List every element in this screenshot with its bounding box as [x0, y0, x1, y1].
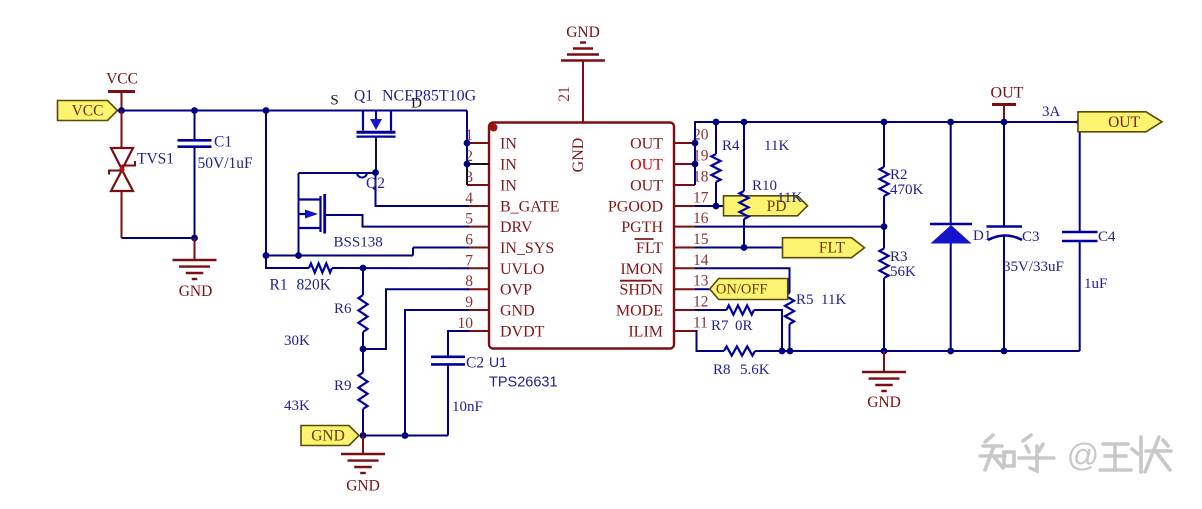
svg-text:21: 21	[556, 86, 573, 102]
svg-text:0R: 0R	[735, 318, 753, 334]
svg-text:OUT: OUT	[991, 85, 1024, 102]
svg-text:R6: R6	[334, 301, 352, 317]
svg-text:IMON: IMON	[620, 261, 663, 278]
svg-text:11K: 11K	[777, 190, 802, 206]
svg-text:BSS138: BSS138	[334, 235, 383, 251]
svg-text:9: 9	[465, 294, 473, 311]
svg-text:820K: 820K	[297, 277, 332, 294]
svg-text:D: D	[411, 96, 422, 112]
svg-text:OVP: OVP	[500, 282, 532, 299]
svg-text:GND: GND	[566, 24, 600, 41]
svg-text:R10: R10	[752, 178, 777, 194]
svg-text:IN: IN	[500, 136, 517, 153]
svg-text:R3: R3	[890, 249, 908, 265]
svg-text:FLT: FLT	[819, 240, 846, 257]
svg-text:30K: 30K	[284, 333, 310, 349]
svg-text:3A: 3A	[1042, 104, 1061, 120]
svg-text:R4: R4	[722, 138, 740, 154]
svg-text:IN: IN	[500, 157, 517, 174]
svg-text:GND: GND	[179, 283, 213, 300]
svg-text:R1: R1	[270, 277, 288, 294]
svg-text:470K: 470K	[890, 182, 924, 198]
svg-text:7: 7	[465, 252, 473, 269]
svg-text:10: 10	[458, 315, 474, 332]
svg-text:C2: C2	[466, 355, 484, 372]
svg-text:12: 12	[693, 294, 709, 311]
svg-text:UVLO: UVLO	[500, 261, 544, 278]
svg-text:C4: C4	[1098, 229, 1116, 245]
svg-text:OUT: OUT	[1108, 114, 1140, 131]
svg-text:13: 13	[693, 273, 709, 290]
svg-text:43K: 43K	[284, 398, 310, 414]
svg-text:U1: U1	[489, 354, 507, 370]
svg-text:DRV: DRV	[500, 219, 533, 236]
svg-text:DVDT: DVDT	[500, 324, 545, 341]
svg-text:11K: 11K	[764, 138, 789, 154]
svg-text:8: 8	[465, 273, 473, 290]
svg-text:4: 4	[465, 190, 473, 207]
svg-text:R8: R8	[713, 362, 731, 378]
svg-text:ON/OFF: ON/OFF	[716, 282, 768, 298]
svg-text:56K: 56K	[890, 264, 916, 280]
svg-text:OUT: OUT	[630, 157, 663, 174]
svg-text:Q1: Q1	[354, 88, 373, 105]
svg-text:NCEP85T10G: NCEP85T10G	[382, 88, 477, 105]
svg-text:35V/33uF: 35V/33uF	[1003, 259, 1064, 275]
svg-text:TVS1: TVS1	[137, 151, 174, 168]
svg-text:5.6K: 5.6K	[740, 362, 770, 378]
svg-text:1uF: 1uF	[1084, 276, 1107, 292]
svg-text:R5: R5	[796, 292, 814, 308]
svg-text:VCC: VCC	[72, 103, 104, 120]
svg-text:Q2: Q2	[366, 175, 385, 192]
svg-text:11: 11	[693, 315, 708, 332]
svg-text:IN: IN	[500, 178, 517, 195]
svg-text:ILIM: ILIM	[628, 324, 663, 341]
svg-text:OUT: OUT	[630, 178, 663, 195]
svg-text:IN_SYS: IN_SYS	[500, 240, 554, 257]
svg-text:TPS26631: TPS26631	[489, 375, 558, 391]
svg-text:C3: C3	[1022, 229, 1040, 245]
svg-text:C1: C1	[214, 134, 232, 151]
svg-text:FLT: FLT	[636, 240, 663, 257]
svg-text:R7: R7	[711, 318, 729, 334]
svg-text:GND: GND	[867, 394, 901, 411]
svg-text:B_GATE: B_GATE	[500, 199, 560, 216]
svg-text:GND: GND	[311, 428, 345, 445]
svg-text:PGOOD: PGOOD	[608, 199, 663, 216]
svg-text:10nF: 10nF	[452, 399, 483, 415]
svg-text:6: 6	[465, 232, 473, 249]
svg-text:15: 15	[693, 231, 709, 248]
svg-text:11K: 11K	[821, 292, 846, 308]
svg-text:GND: GND	[570, 138, 587, 173]
svg-text:R9: R9	[334, 378, 352, 394]
svg-text:17: 17	[693, 190, 709, 207]
svg-text:SHDN: SHDN	[619, 282, 663, 299]
svg-text:S: S	[330, 93, 338, 109]
svg-text:@: @	[1067, 437, 1099, 473]
svg-text:50V/1uF: 50V/1uF	[198, 155, 254, 172]
svg-text:R2: R2	[890, 167, 908, 183]
svg-text:VCC: VCC	[106, 71, 138, 88]
svg-text:16: 16	[693, 210, 709, 227]
svg-text:GND: GND	[500, 303, 535, 320]
svg-text:PGTH: PGTH	[621, 219, 663, 236]
svg-text:14: 14	[693, 252, 709, 269]
svg-text:OUT: OUT	[630, 136, 663, 153]
svg-text:5: 5	[465, 211, 473, 228]
svg-text:D1: D1	[973, 228, 991, 244]
svg-text:MODE: MODE	[616, 303, 663, 320]
svg-text:GND: GND	[346, 478, 380, 495]
